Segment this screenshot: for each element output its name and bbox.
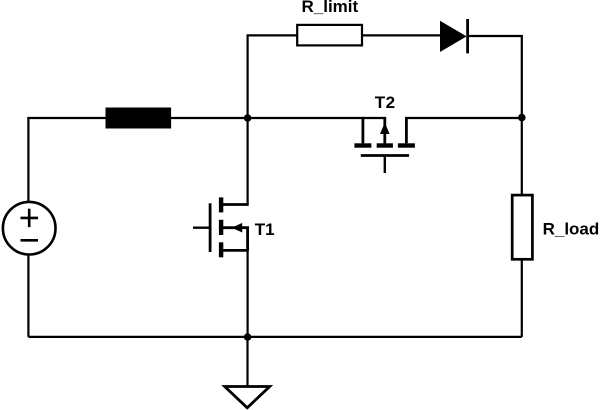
diode D1 — [440, 19, 468, 53]
resistor R1 (filled body) — [106, 108, 172, 129]
wire: R_load down to bottom-right corner — [521, 259, 523, 337]
wire: node B down to R_load — [521, 118, 523, 196]
wire: diode cathode right and down to node B — [468, 36, 522, 118]
T2 body lead with arrow — [383, 117, 386, 145]
T2 drain terminal drop — [405, 117, 408, 143]
node A junction dot — [244, 114, 252, 122]
transistor T2 — [354, 117, 415, 173]
T2 gate plate — [361, 154, 409, 157]
wire: T1 source down to node C — [247, 250, 249, 337]
wire: left rail down from top-left corner to source V1 — [27, 118, 29, 201]
node C junction dot — [244, 333, 252, 341]
T1 drain connect — [221, 203, 249, 206]
wire: node C down to ground — [246, 337, 248, 387]
wire: node A to T2 source/body — [248, 117, 385, 119]
wire: T2 drain to node B — [406, 117, 521, 119]
T1 body lead with arrow — [221, 228, 248, 251]
wire: R_limit to diode anode — [362, 34, 441, 36]
wire: bottom rail — [28, 336, 521, 338]
T1 gate plate — [209, 203, 212, 252]
T1 gate lead (dangling) — [193, 226, 210, 228]
T2 gate lead (dangling) — [384, 156, 386, 174]
T1 channel contact bars — [219, 197, 223, 212]
ground — [225, 387, 270, 408]
wire: top-left horizontal, left rail corner to filled resistor — [28, 118, 105, 119]
T1 source connect — [221, 249, 249, 252]
T2 channel contact bars — [354, 143, 371, 147]
resistor R_load — [512, 195, 532, 259]
svg-text:R_limit: R_limit — [302, 0, 359, 16]
wire: V1 down to bottom-left corner — [27, 254, 29, 337]
wire: node A down to T1 drain — [247, 118, 249, 205]
voltage source V1 — [3, 202, 56, 255]
svg-text:R_load: R_load — [543, 220, 600, 239]
wire: node A up and right to R_limit — [248, 35, 298, 118]
svg-text:T2: T2 — [375, 93, 396, 112]
T2 source terminal drop — [361, 117, 364, 143]
resistor R_limit — [297, 25, 362, 46]
svg-text:T1: T1 — [255, 220, 275, 239]
wire: filled resistor to node A — [171, 117, 248, 119]
transistor T1 — [193, 197, 249, 257]
node B junction dot — [518, 114, 526, 122]
